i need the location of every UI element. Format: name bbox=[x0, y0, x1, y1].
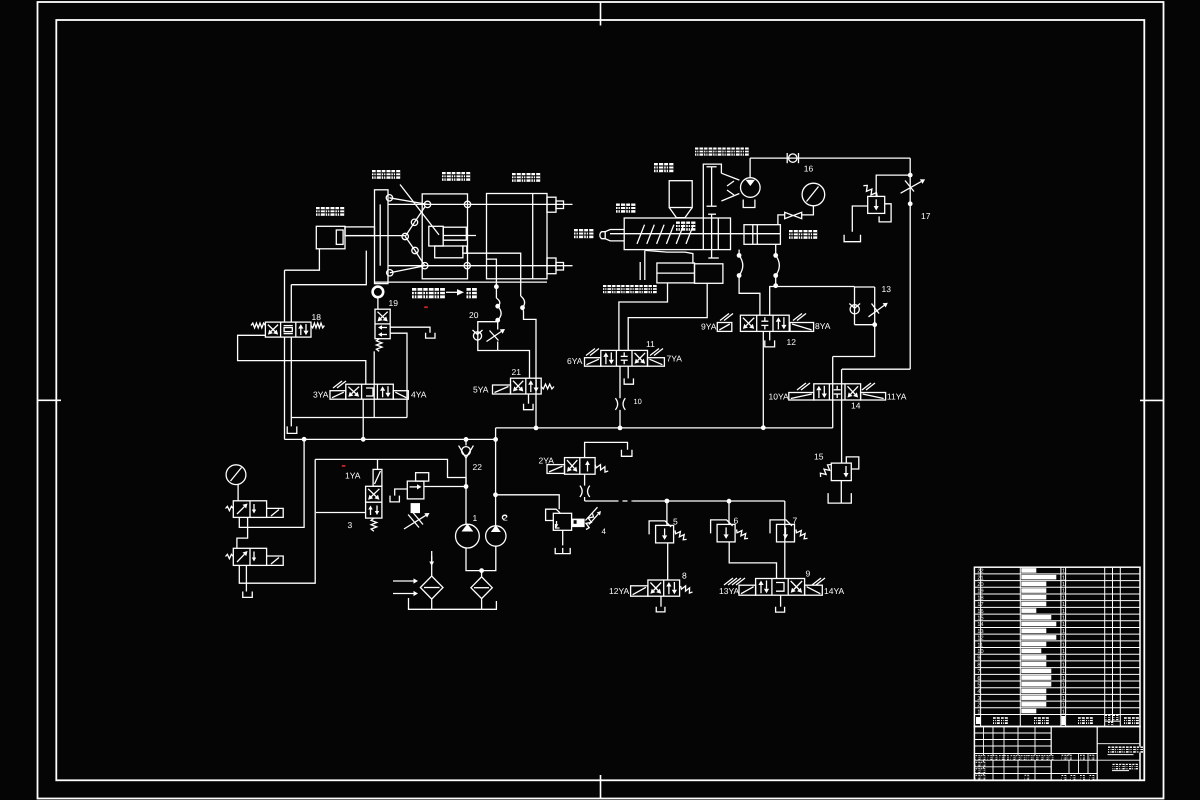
wire shutoff to injection cylinder bbox=[778, 215, 785, 225]
valve 11 drain stub to tank bbox=[627, 366, 629, 378]
valve 9 body (13YA-14YA) bbox=[756, 579, 805, 596]
bottom centering mark bbox=[600, 775, 602, 799]
machine base line bbox=[375, 281, 548, 283]
svg-text:19: 19 bbox=[389, 298, 399, 308]
valve 8 body (12YA) bbox=[648, 580, 680, 596]
svg-text:9: 9 bbox=[806, 569, 811, 579]
proportional valve 3 (1YA) body bbox=[366, 486, 382, 518]
svg-text:12: 12 bbox=[977, 636, 983, 642]
relief valve 17 pilot loop bbox=[879, 204, 891, 222]
wire motor to top line bbox=[749, 158, 751, 178]
wire valve 19 through 3YA valve to drain line bbox=[373, 351, 375, 417]
wire pilot relief 3 to pump line bbox=[424, 486, 466, 488]
wire valve 19 right port to tank bbox=[390, 327, 430, 333]
svg-text:12YA: 12YA bbox=[609, 586, 629, 596]
sheet info text (underlined) bbox=[1113, 764, 1119, 770]
long line from machine hose to bus (crosses valve 21) bbox=[524, 311, 537, 428]
svg-text:18: 18 bbox=[312, 312, 322, 322]
svg-text:5: 5 bbox=[977, 682, 980, 688]
valve 3 spring below bbox=[371, 518, 377, 531]
ejector cylinder 顶出缸 label bbox=[372, 170, 381, 179]
top centering mark bbox=[600, 2, 602, 26]
svg-text:11: 11 bbox=[977, 642, 983, 648]
pump 1 circle bbox=[456, 524, 480, 548]
svg-text:14: 14 bbox=[977, 622, 983, 628]
svg-text:1YA: 1YA bbox=[345, 471, 361, 481]
svg-text:9: 9 bbox=[977, 656, 980, 662]
wire valve A to valve B bbox=[237, 517, 248, 548]
valve 2YA spring bbox=[595, 465, 608, 473]
svg-text:1: 1 bbox=[1062, 642, 1065, 648]
wire valve 6 to valve 9 bbox=[729, 542, 776, 579]
svg-text:14: 14 bbox=[851, 401, 861, 411]
svg-text:16: 16 bbox=[804, 164, 814, 174]
gauge stem + shutoff valve bbox=[802, 206, 814, 215]
wire valve B out bbox=[239, 459, 315, 583]
svg-text:5: 5 bbox=[673, 517, 678, 527]
valve 2YA bottom through coupling bbox=[584, 474, 586, 485]
BOM row lines bbox=[974, 573, 1140, 575]
valve 21 drain to tank bbox=[528, 394, 530, 404]
valve 8 drain tank bbox=[660, 596, 662, 607]
injection cylinder body bbox=[744, 225, 780, 245]
pilot relief 3 spring-arrow bbox=[404, 515, 426, 529]
fixed platen body bbox=[487, 194, 548, 279]
title block right cells bbox=[1097, 743, 1140, 745]
svg-text:13: 13 bbox=[882, 284, 892, 294]
svg-text:4: 4 bbox=[602, 527, 607, 536]
limit switch wire right bbox=[465, 253, 521, 296]
drain line to tank bbox=[292, 417, 408, 419]
svg-text:1: 1 bbox=[1062, 696, 1065, 702]
wire clamp B port bbox=[290, 285, 292, 322]
motor mount bracket bbox=[743, 200, 755, 208]
barrel 料筒 label bbox=[616, 204, 625, 213]
screw 螺杆 label bbox=[676, 222, 685, 231]
hydraulic motor circle bbox=[741, 178, 761, 198]
valve 9 solenoids bbox=[739, 585, 756, 595]
svg-text:11YA: 11YA bbox=[887, 392, 907, 402]
hose pair below platens left bbox=[498, 306, 501, 320]
nozzle bbox=[605, 230, 624, 241]
title block frame bbox=[974, 727, 1140, 781]
hopper bbox=[669, 181, 692, 208]
svg-text:7YA: 7YA bbox=[667, 354, 683, 364]
relief valve 15 spring bbox=[820, 465, 831, 478]
valve 3 top stub bbox=[377, 459, 379, 469]
relief valve 5 bbox=[656, 525, 674, 543]
valve 2YA top wire to tank bbox=[585, 442, 628, 457]
hose pair left of injection cyl bbox=[738, 250, 740, 256]
wire 20 to valve 21 bbox=[498, 351, 530, 379]
inline check valve 16-line bbox=[789, 154, 797, 162]
svg-text:1: 1 bbox=[1062, 569, 1065, 575]
svg-text:3YA: 3YA bbox=[313, 390, 329, 400]
svg-text:1: 1 bbox=[1062, 656, 1065, 662]
red mark a bbox=[342, 465, 346, 467]
svg-text:4YA: 4YA bbox=[411, 390, 427, 400]
svg-text:1: 1 bbox=[1062, 689, 1065, 695]
right centering mark bbox=[1140, 399, 1164, 401]
valve 2YA body bbox=[565, 458, 596, 475]
valve 3YA-4YA solenoids bbox=[330, 391, 346, 400]
pressure gauge 16 bbox=[802, 183, 825, 206]
svg-text:15: 15 bbox=[977, 616, 983, 622]
hopper 料斗 label bbox=[654, 163, 663, 172]
valve 11 solenoids bbox=[585, 358, 601, 367]
title block middle section bbox=[1096, 727, 1098, 781]
svg-text:10: 10 bbox=[977, 649, 983, 655]
svg-text:13: 13 bbox=[977, 629, 983, 635]
wire pump2 line to valve 4 bbox=[496, 495, 560, 510]
svg-text:1: 1 bbox=[1062, 709, 1065, 715]
clamping cylinder piston bbox=[336, 230, 343, 244]
mold touch plate bbox=[443, 227, 466, 240]
left centering mark bbox=[38, 399, 62, 401]
svg-text:21: 21 bbox=[512, 367, 522, 377]
toggle linkage pivots bbox=[411, 219, 417, 225]
clamping cylinder support leg bbox=[285, 249, 320, 270]
svg-text:1: 1 bbox=[1062, 595, 1065, 601]
svg-text:9YA: 9YA bbox=[701, 322, 717, 332]
svg-text:2: 2 bbox=[977, 703, 980, 709]
svg-text:8: 8 bbox=[977, 662, 980, 668]
valve 12 line down to bus bbox=[762, 331, 764, 427]
red mark b bbox=[424, 306, 428, 308]
pre-plasticizing hydraulic motor 预塑液压马达 label bbox=[695, 148, 703, 156]
fixed platen 定模板 label bbox=[512, 173, 521, 182]
wire down to valve 7 bbox=[784, 501, 786, 579]
title block left revision grid bbox=[983, 727, 985, 754]
wire valve 18 left port bbox=[238, 335, 366, 384]
svg-text:7: 7 bbox=[977, 669, 980, 675]
barrel bottom step profile bbox=[645, 250, 693, 263]
wire seat cyl to valve 11 (B) bbox=[628, 283, 707, 350]
valve 14 P line crossing down to valve 15 bbox=[841, 369, 843, 463]
svg-text:17: 17 bbox=[921, 211, 931, 221]
tie bar boss upper bbox=[547, 197, 556, 212]
screw flights bbox=[637, 225, 645, 244]
svg-text:5YA: 5YA bbox=[473, 385, 489, 395]
wire valve 18 B down to tank bbox=[290, 337, 292, 426]
proportional relief valve 4 body bbox=[553, 513, 571, 530]
title block signature rows bbox=[974, 759, 1051, 761]
gauge isolator valve B bbox=[233, 548, 266, 565]
svg-text:4: 4 bbox=[977, 689, 980, 695]
tie bar lower bbox=[388, 265, 573, 267]
relief valve 7 bbox=[777, 524, 795, 542]
svg-text:22: 22 bbox=[977, 569, 983, 575]
valve 21 body (5YA) bbox=[511, 378, 542, 394]
check ball 20 bbox=[473, 332, 481, 340]
svg-text:6: 6 bbox=[734, 516, 739, 526]
clamping cylinder body bbox=[316, 226, 345, 249]
svg-text:1: 1 bbox=[1062, 622, 1065, 628]
wire gauge-isolator B to valve area bbox=[315, 459, 466, 486]
valve 4 spring and proportional slashes bbox=[586, 514, 594, 530]
svg-text:10YA: 10YA bbox=[769, 392, 789, 402]
leader line ejector bbox=[400, 185, 439, 235]
wire valve 18 A down to bus bbox=[284, 337, 286, 439]
svg-text:17: 17 bbox=[977, 602, 983, 608]
throttle 20 bbox=[487, 332, 502, 342]
check valve 22 bbox=[465, 439, 467, 445]
drive spline column bbox=[703, 164, 721, 218]
svg-text:1: 1 bbox=[1062, 616, 1065, 622]
svg-text:1: 1 bbox=[1062, 629, 1065, 635]
valve 3YA-4YA body bbox=[346, 384, 394, 399]
svg-text:1: 1 bbox=[1062, 575, 1065, 581]
tie bar boss lower bbox=[547, 258, 556, 274]
pressure gauge left bbox=[226, 465, 246, 485]
check-throttle unit 13 bbox=[854, 287, 856, 325]
svg-text:1: 1 bbox=[1062, 703, 1065, 709]
svg-text:10: 10 bbox=[634, 397, 642, 406]
wire clamp A port bbox=[284, 270, 286, 322]
svg-text:1: 1 bbox=[1062, 682, 1065, 688]
valve 8 solenoid bbox=[631, 586, 648, 596]
svg-text:1: 1 bbox=[1062, 609, 1065, 615]
svg-text:1: 1 bbox=[1062, 662, 1065, 668]
valve B tank bbox=[245, 565, 247, 591]
svg-text:19: 19 bbox=[977, 589, 983, 595]
svg-text:2YA: 2YA bbox=[539, 456, 555, 466]
valve 14 solenoids bbox=[789, 393, 814, 401]
svg-text:1: 1 bbox=[1062, 602, 1065, 608]
valve 9 drain tank bbox=[780, 595, 782, 607]
svg-text:1: 1 bbox=[1062, 676, 1065, 682]
wire to valve 14 P-port bbox=[842, 368, 910, 370]
nozzle 喷嘴 label bbox=[574, 229, 583, 238]
pump suction lines bbox=[465, 487, 467, 525]
pressure bus upper (y428) bbox=[496, 427, 833, 429]
svg-text:1: 1 bbox=[1062, 636, 1065, 642]
pressure bus lower (y439) bbox=[284, 438, 495, 440]
pump 2 riser line bbox=[495, 439, 497, 525]
safety door switch circle bbox=[373, 287, 384, 298]
valve 11 line down through coupling 10 to bus bbox=[619, 366, 621, 398]
safety door label 安全门 bbox=[412, 288, 422, 298]
cooler/return filter diamond bbox=[420, 576, 443, 599]
gauge isolator valve A bbox=[233, 501, 266, 518]
ejector plate blocks bbox=[435, 246, 463, 258]
wire valve 19 lower right port bbox=[390, 333, 407, 417]
tie bar upper bbox=[388, 203, 573, 205]
valve 14 T line crossing down to bus bbox=[832, 357, 834, 428]
svg-text:20: 20 bbox=[469, 310, 479, 320]
svg-text:1: 1 bbox=[1062, 669, 1065, 675]
valve 11 body (6YA-7YA) bbox=[601, 350, 648, 366]
BOM column lines bbox=[980, 567, 982, 726]
BOM table frame bbox=[974, 567, 1140, 726]
safety door arrow bbox=[446, 291, 457, 293]
valve 14 body (10YA-11YA) bbox=[814, 384, 861, 400]
svg-text:15: 15 bbox=[814, 452, 824, 462]
motor coupling diagonals bbox=[721, 173, 739, 180]
svg-text:8: 8 bbox=[682, 571, 687, 581]
pilot relief assembly 3 (proportional) bbox=[416, 473, 429, 481]
guide rod bbox=[639, 262, 641, 280]
injection seat blocks bbox=[657, 263, 695, 283]
wire 13 to valve 14 A-port bbox=[833, 325, 875, 357]
toggle support plate bbox=[375, 190, 389, 284]
svg-text:8YA: 8YA bbox=[815, 321, 831, 331]
wire bus to valve A bbox=[239, 439, 304, 527]
wire door circle to valve 19 bbox=[377, 297, 379, 309]
wire seat cyl to valve 11 (A) bbox=[619, 283, 668, 350]
moving platen body bbox=[422, 194, 467, 279]
valve 21 solenoid bbox=[493, 385, 511, 394]
clamping cylinder 合模缸 label bbox=[316, 207, 325, 216]
valve 18 body (pilot operated) bbox=[265, 322, 311, 337]
relief valve 6 bbox=[717, 524, 735, 542]
valve 12 drain to tank bbox=[769, 331, 771, 340]
toggle links bbox=[389, 198, 427, 205]
svg-text:11: 11 bbox=[646, 339, 655, 349]
BOM header row blobs bbox=[976, 717, 981, 724]
tank symbol left drain bbox=[287, 426, 297, 433]
svg-text:1: 1 bbox=[977, 709, 980, 715]
valve 15 drain + tank bbox=[840, 481, 842, 503]
valve 2YA solenoid bbox=[547, 465, 565, 474]
svg-text:21: 21 bbox=[977, 575, 983, 581]
relief valve 17 top wire bbox=[876, 175, 910, 196]
svg-text:1: 1 bbox=[473, 513, 478, 523]
svg-text:14YA: 14YA bbox=[824, 586, 844, 596]
relief valve 17 body bbox=[868, 196, 885, 213]
remote throttle arrow on line 17 bbox=[901, 182, 922, 194]
svg-text:12: 12 bbox=[787, 337, 797, 347]
middle section labels 重量/比例 bbox=[1062, 755, 1067, 760]
wire injection line to comp 13 bbox=[770, 287, 855, 316]
moving platen 动模板 label bbox=[442, 172, 451, 181]
return arrows bbox=[393, 580, 414, 582]
clamping cylinder rod block bbox=[345, 227, 375, 236]
safety door label 关 bbox=[467, 288, 477, 298]
screw centerline bbox=[610, 233, 780, 235]
wire valve 5 to valve 8 bbox=[667, 543, 669, 580]
barrel body bbox=[624, 218, 730, 250]
svg-text:1: 1 bbox=[1062, 582, 1065, 588]
valve 4 solenoid block (filled) bbox=[572, 519, 585, 528]
tank tray bbox=[409, 598, 497, 609]
svg-text:3: 3 bbox=[348, 520, 353, 530]
relief valve 17 spring bbox=[863, 185, 877, 196]
valve 4 pilot loop bbox=[546, 509, 560, 520]
injection cylinder 注射缸 label bbox=[789, 230, 798, 239]
valve 4 drain tank bbox=[562, 530, 564, 545]
svg-text:1: 1 bbox=[1062, 649, 1065, 655]
svg-text:6YA: 6YA bbox=[567, 356, 583, 366]
right main vertical line bbox=[909, 158, 911, 369]
svg-text:3: 3 bbox=[977, 696, 980, 702]
relief valve 15 pilot loop bbox=[846, 457, 859, 469]
valve 19 safety door valve body bbox=[375, 309, 390, 339]
pump 2 circle bbox=[486, 526, 506, 546]
svg-text:22: 22 bbox=[473, 462, 483, 472]
wire 3YA valve to bus bbox=[362, 399, 364, 439]
pump 2 shaft curl bbox=[502, 515, 506, 519]
svg-text:13YA: 13YA bbox=[719, 586, 739, 596]
svg-text:1: 1 bbox=[1062, 589, 1065, 595]
hose pair below platens right bbox=[521, 296, 525, 308]
relief valve 17 drain to tank bbox=[852, 206, 867, 232]
svg-text:16: 16 bbox=[977, 609, 983, 615]
clamping cylinder rod centerline bbox=[345, 235, 405, 237]
svg-text:2: 2 bbox=[503, 513, 508, 523]
signature row text blobs bbox=[976, 755, 981, 760]
wire valve 3 left port bbox=[316, 512, 366, 514]
pilot supply line y501 bbox=[585, 500, 614, 502]
svg-text:6: 6 bbox=[977, 676, 980, 682]
svg-text:18: 18 bbox=[977, 595, 983, 601]
tie bar nuts (circles) bbox=[386, 195, 392, 201]
mold block on moving platen bbox=[429, 226, 443, 246]
valve 8 spring bbox=[681, 586, 693, 593]
valve 21 spring bbox=[541, 384, 554, 389]
injection seat cylinder 注射座移动缸 label bbox=[603, 285, 611, 293]
drawing title text (underlined) bbox=[1108, 747, 1114, 753]
svg-text:7: 7 bbox=[793, 516, 798, 526]
hose pair right of injection cyl bbox=[775, 244, 777, 255]
flow control 20 loop bbox=[478, 322, 498, 351]
valve 19 spring below bbox=[376, 339, 382, 352]
valve 12 body (9YA-8YA) bbox=[740, 315, 789, 331]
coupling 10 symbol bbox=[615, 398, 617, 410]
svg-text:20: 20 bbox=[977, 582, 983, 588]
pilot relief 3 drain tank bbox=[395, 489, 408, 496]
relief valve 15 body bbox=[831, 463, 851, 481]
top supply line bbox=[750, 157, 910, 159]
limit switch wire left bbox=[487, 259, 497, 287]
suction filter diamond bbox=[471, 577, 492, 599]
valve 18 springs bbox=[251, 323, 265, 328]
valve 3 solenoid ext bbox=[373, 469, 382, 486]
valve 12 solenoids bbox=[717, 323, 732, 332]
